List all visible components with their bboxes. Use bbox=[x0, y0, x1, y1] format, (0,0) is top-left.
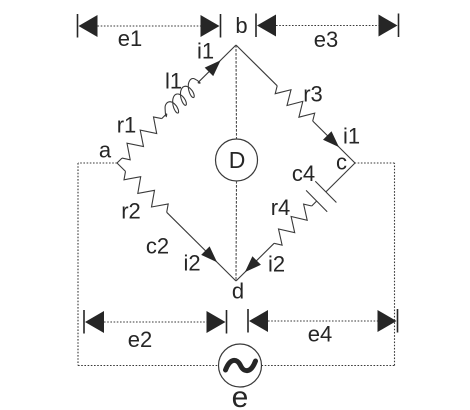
svg-text:e: e bbox=[232, 381, 249, 410]
current arrow i1 (arm a-b) bbox=[205, 60, 221, 76]
wire bottom left to source bbox=[78, 365, 219, 367]
dimension tick right (e4) bbox=[397, 309, 399, 333]
svg-text:r1: r1 bbox=[117, 113, 137, 138]
wire c4 to r4 bbox=[312, 201, 317, 206]
dimension tick right (e3) bbox=[398, 14, 400, 38]
wire source to bottom right bbox=[262, 365, 395, 367]
svg-text:i1: i1 bbox=[343, 124, 360, 149]
wire a to left rail bbox=[78, 162, 117, 164]
wire r4 to d bbox=[236, 243, 274, 281]
wire a to r1 bbox=[117, 158, 122, 163]
wire r2 to d bbox=[167, 212, 236, 281]
svg-text:c2: c2 bbox=[146, 234, 169, 259]
wire right rail up bbox=[394, 163, 396, 366]
resistor r1 bbox=[122, 117, 162, 160]
svg-text:b: b bbox=[235, 13, 247, 38]
wire right rail to c bbox=[355, 162, 395, 164]
wire b to detector bbox=[235, 45, 238, 139]
capacitor c4 bbox=[306, 181, 336, 212]
dimension tick right (e2) bbox=[226, 310, 228, 334]
detector D bbox=[216, 139, 258, 181]
current arrow i2 (arm a-d) bbox=[201, 246, 217, 262]
wire detector to d bbox=[235, 181, 238, 281]
dimension tick left (e2) bbox=[83, 310, 85, 334]
svg-text:a: a bbox=[99, 138, 112, 163]
svg-text:c: c bbox=[336, 150, 347, 175]
wire left rail down bbox=[77, 163, 79, 366]
dimension arrow e4 bbox=[249, 310, 268, 332]
svg-text:D: D bbox=[229, 147, 246, 173]
svg-text:e2: e2 bbox=[128, 327, 152, 352]
inductor l1 bbox=[165, 79, 200, 117]
resistor r4 bbox=[274, 204, 312, 245]
resistor r3 bbox=[275, 86, 315, 121]
svg-text:r2: r2 bbox=[121, 199, 141, 224]
svg-text:c4: c4 bbox=[292, 161, 315, 186]
svg-text:e3: e3 bbox=[314, 27, 338, 52]
dimension arrow e3 bbox=[257, 15, 276, 37]
svg-text:l1: l1 bbox=[165, 69, 182, 94]
svg-text:i2: i2 bbox=[268, 252, 285, 277]
wire l1 to b bbox=[198, 45, 236, 83]
dimension tick left (e1) bbox=[77, 14, 79, 38]
svg-text:r4: r4 bbox=[271, 195, 291, 220]
resistor r2 bbox=[124, 171, 168, 212]
wire b to r3 bbox=[236, 45, 277, 86]
dimension tick left (e4) bbox=[247, 309, 249, 333]
svg-text:i2: i2 bbox=[183, 251, 200, 276]
svg-text:r3: r3 bbox=[303, 82, 323, 107]
svg-text:e4: e4 bbox=[308, 322, 332, 347]
dimension arrow e1 bbox=[79, 15, 98, 37]
svg-text:i1: i1 bbox=[197, 39, 214, 64]
svg-text:d: d bbox=[232, 279, 244, 304]
current arrow i1 (arm b-c) bbox=[323, 131, 339, 147]
AC source e bbox=[219, 344, 262, 387]
wire c to c4 bbox=[326, 163, 355, 192]
dimension arrow e2 bbox=[85, 311, 104, 333]
dimension tick right (e1) bbox=[220, 14, 222, 38]
wire r3 to c bbox=[313, 121, 355, 163]
dimension tick left (e3) bbox=[255, 14, 257, 38]
wire a to r2 bbox=[117, 163, 126, 171]
svg-text:e1: e1 bbox=[118, 26, 142, 51]
wire r1 to l1 bbox=[162, 114, 167, 119]
current arrow i2 (arm c-d) bbox=[245, 256, 261, 272]
